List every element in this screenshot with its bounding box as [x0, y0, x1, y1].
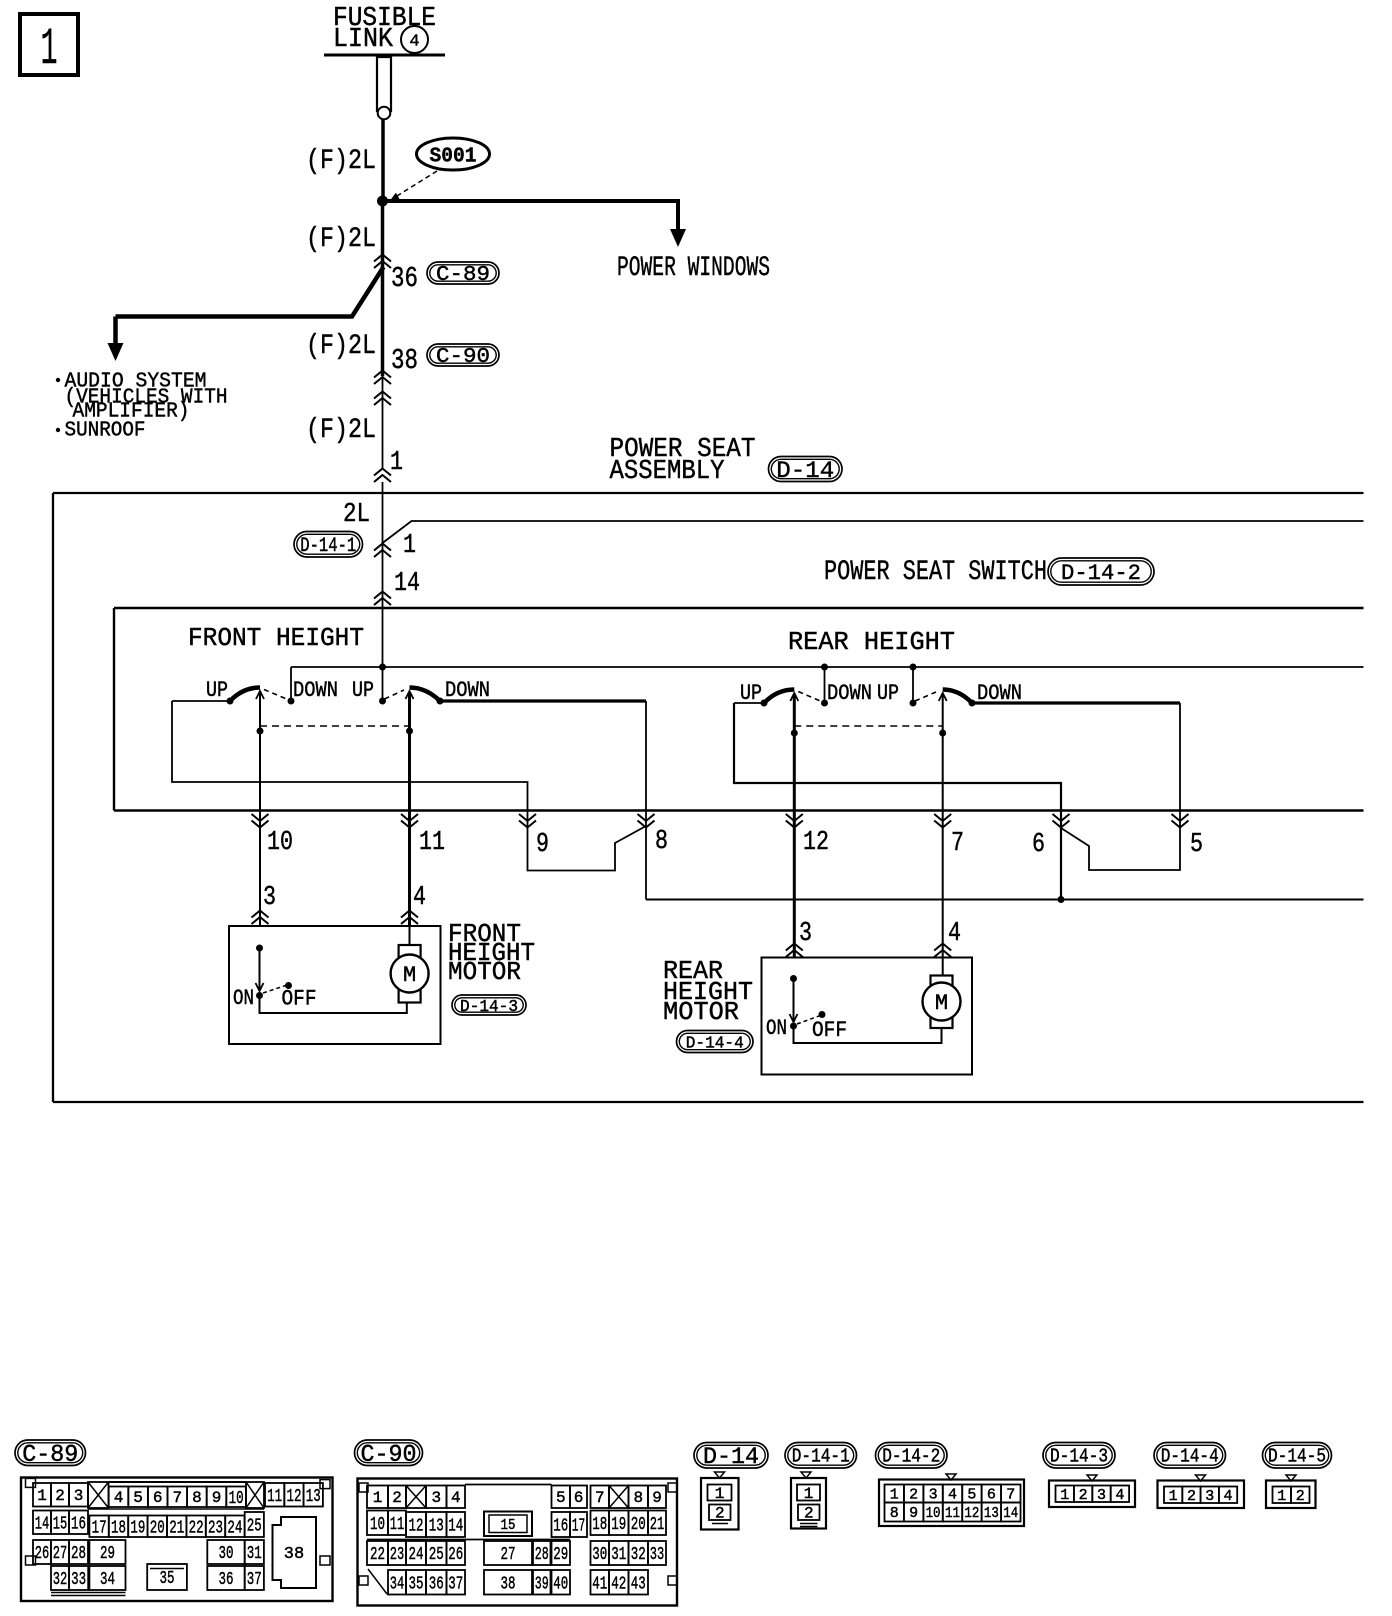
svg-text:30: 30 — [592, 1545, 607, 1565]
svg-text:D-14: D-14 — [776, 458, 834, 484]
svg-text:38: 38 — [284, 1545, 304, 1564]
svg-text:8: 8 — [192, 1489, 202, 1507]
svg-text:35: 35 — [409, 1574, 424, 1594]
svg-text:C-90: C-90 — [361, 1442, 417, 1469]
svg-text:14: 14 — [1003, 1505, 1018, 1522]
svg-text:4: 4 — [1115, 1487, 1124, 1504]
svg-text:36: 36 — [391, 262, 418, 295]
svg-text:3: 3 — [799, 919, 812, 949]
svg-text:3: 3 — [74, 1487, 84, 1505]
svg-text:13: 13 — [306, 1487, 321, 1507]
svg-text:5: 5 — [967, 1487, 976, 1504]
svg-text:39: 39 — [535, 1574, 549, 1594]
svg-text:(F)2L: (F)2L — [306, 224, 376, 255]
svg-text:9: 9 — [652, 1489, 662, 1507]
svg-text:6: 6 — [987, 1487, 996, 1504]
svg-text:5: 5 — [133, 1489, 143, 1507]
svg-text:2: 2 — [55, 1487, 65, 1505]
svg-text:6: 6 — [153, 1489, 163, 1507]
svg-text:18: 18 — [592, 1515, 607, 1535]
svg-text:26: 26 — [448, 1545, 463, 1565]
svg-text:16: 16 — [553, 1517, 568, 1537]
svg-text:7: 7 — [172, 1489, 182, 1507]
svg-text:15: 15 — [53, 1514, 68, 1534]
svg-text:12: 12 — [409, 1517, 424, 1537]
svg-text:13: 13 — [984, 1505, 999, 1522]
svg-text:15: 15 — [501, 1517, 516, 1534]
svg-text:19: 19 — [611, 1515, 626, 1535]
svg-text:1: 1 — [804, 1485, 814, 1503]
svg-text:12: 12 — [803, 828, 829, 858]
svg-text:16: 16 — [71, 1514, 86, 1534]
svg-text:D-14-1: D-14-1 — [792, 1446, 850, 1468]
svg-text:36: 36 — [429, 1574, 444, 1594]
svg-text:M: M — [403, 963, 416, 988]
svg-text:D-14-5: D-14-5 — [1268, 1446, 1326, 1468]
svg-text:4: 4 — [409, 33, 419, 52]
svg-text:DOWN: DOWN — [827, 681, 872, 706]
svg-text:9: 9 — [536, 830, 549, 860]
svg-text:4: 4 — [451, 1489, 461, 1507]
svg-text:(F)2L: (F)2L — [306, 415, 376, 446]
svg-text:29: 29 — [553, 1545, 568, 1565]
svg-text:30: 30 — [219, 1544, 234, 1564]
svg-text:20: 20 — [631, 1515, 646, 1535]
svg-text:31: 31 — [611, 1545, 626, 1565]
svg-text:11: 11 — [267, 1487, 282, 1507]
svg-text:13: 13 — [429, 1517, 444, 1537]
svg-text:3: 3 — [1097, 1487, 1106, 1504]
svg-text:D-14-4: D-14-4 — [1161, 1446, 1219, 1468]
svg-text:17: 17 — [92, 1518, 107, 1538]
svg-text:34: 34 — [390, 1574, 405, 1594]
svg-text:7: 7 — [595, 1489, 605, 1507]
svg-text:2L: 2L — [343, 500, 370, 530]
svg-text:32: 32 — [53, 1570, 68, 1590]
svg-text:7: 7 — [951, 829, 964, 859]
svg-text:20: 20 — [150, 1518, 165, 1538]
svg-text:UP: UP — [877, 681, 899, 706]
svg-text:2: 2 — [1187, 1488, 1196, 1505]
svg-text:8: 8 — [655, 827, 668, 857]
svg-text:UP: UP — [352, 678, 374, 703]
svg-text:9: 9 — [212, 1489, 222, 1507]
svg-text:6: 6 — [1032, 830, 1045, 860]
svg-text:2: 2 — [1296, 1488, 1305, 1505]
svg-text:12: 12 — [286, 1487, 301, 1507]
svg-text:OFF: OFF — [812, 1018, 847, 1043]
svg-text:11: 11 — [419, 828, 445, 858]
svg-text:14: 14 — [35, 1514, 50, 1534]
svg-text:21: 21 — [169, 1518, 184, 1538]
svg-text:10: 10 — [267, 828, 293, 858]
svg-text:POWER WINDOWS: POWER WINDOWS — [617, 253, 770, 284]
svg-text:10: 10 — [926, 1505, 941, 1522]
svg-text:38: 38 — [391, 344, 418, 377]
svg-text:32: 32 — [631, 1545, 646, 1565]
svg-text:D-14: D-14 — [703, 1444, 759, 1470]
svg-text:1: 1 — [1169, 1488, 1178, 1505]
svg-text:28: 28 — [535, 1545, 549, 1565]
svg-text:4: 4 — [948, 1487, 957, 1504]
svg-text:D-14-3: D-14-3 — [1050, 1446, 1108, 1468]
svg-text:C-89: C-89 — [22, 1442, 78, 1469]
svg-text:MOTOR: MOTOR — [448, 957, 521, 987]
svg-text:10: 10 — [370, 1515, 385, 1535]
svg-text:10: 10 — [229, 1489, 244, 1509]
svg-text:4: 4 — [1224, 1488, 1233, 1505]
svg-text:4: 4 — [114, 1489, 124, 1507]
svg-text:3: 3 — [431, 1489, 441, 1507]
svg-text:1: 1 — [890, 1487, 899, 1504]
svg-text:37: 37 — [448, 1574, 463, 1594]
svg-text:26: 26 — [35, 1544, 50, 1564]
svg-text:2: 2 — [392, 1489, 402, 1507]
svg-text:36: 36 — [219, 1570, 234, 1590]
svg-text:21: 21 — [650, 1515, 665, 1535]
svg-text:D-14-1: D-14-1 — [300, 535, 356, 558]
svg-text:D-14-2: D-14-2 — [882, 1446, 940, 1468]
svg-text:35: 35 — [160, 1569, 175, 1589]
svg-text:4: 4 — [413, 883, 426, 913]
svg-text:MOTOR: MOTOR — [663, 997, 739, 1027]
svg-text:6: 6 — [574, 1489, 584, 1507]
svg-text:25: 25 — [247, 1517, 262, 1537]
svg-text:27: 27 — [53, 1544, 68, 1564]
svg-text:34: 34 — [100, 1570, 115, 1590]
svg-text:9: 9 — [909, 1505, 918, 1522]
svg-text:8: 8 — [890, 1505, 899, 1522]
svg-text:5: 5 — [556, 1489, 566, 1507]
svg-text:37: 37 — [247, 1570, 262, 1590]
svg-text:12: 12 — [964, 1505, 979, 1522]
svg-text:41: 41 — [592, 1574, 607, 1594]
svg-text:11: 11 — [945, 1505, 960, 1522]
svg-text:14: 14 — [448, 1517, 463, 1537]
svg-text:SUNROOF: SUNROOF — [65, 420, 146, 443]
svg-text:ON: ON — [233, 986, 254, 1011]
svg-text:3: 3 — [929, 1487, 938, 1504]
svg-text:22: 22 — [189, 1518, 204, 1538]
svg-text:33: 33 — [71, 1570, 86, 1590]
svg-text:1: 1 — [715, 1485, 725, 1503]
svg-text:31: 31 — [247, 1544, 262, 1564]
svg-text:5: 5 — [1190, 830, 1203, 860]
svg-text:11: 11 — [390, 1515, 405, 1535]
svg-text:(F)2L: (F)2L — [306, 331, 376, 362]
svg-text:ON: ON — [766, 1016, 787, 1041]
svg-text:4: 4 — [948, 919, 961, 949]
svg-text:19: 19 — [130, 1518, 145, 1538]
svg-text:1: 1 — [373, 1489, 383, 1507]
svg-text:POWER SEAT SWITCH: POWER SEAT SWITCH — [824, 557, 1047, 588]
svg-text:D-14-2: D-14-2 — [1061, 561, 1141, 586]
svg-text:REAR HEIGHT: REAR HEIGHT — [788, 627, 955, 657]
svg-text:1: 1 — [1277, 1488, 1286, 1505]
svg-text:C-89: C-89 — [436, 264, 490, 287]
svg-text:14: 14 — [394, 569, 420, 599]
svg-text:43: 43 — [631, 1574, 646, 1594]
svg-text:S001: S001 — [430, 146, 477, 169]
svg-text:D-14-3: D-14-3 — [460, 998, 518, 1017]
svg-text:42: 42 — [611, 1574, 626, 1594]
svg-text:27: 27 — [501, 1545, 516, 1565]
svg-text:ASSEMBLY: ASSEMBLY — [610, 457, 725, 487]
svg-text:2: 2 — [1079, 1487, 1088, 1504]
svg-text:FRONT HEIGHT: FRONT HEIGHT — [188, 623, 364, 653]
svg-text:2: 2 — [715, 1505, 725, 1523]
svg-text:1: 1 — [390, 448, 403, 478]
svg-text:(F)2L: (F)2L — [306, 146, 376, 177]
svg-text:1: 1 — [403, 531, 416, 561]
svg-text:1: 1 — [41, 20, 58, 79]
svg-text:40: 40 — [553, 1574, 568, 1594]
svg-text:3: 3 — [263, 883, 276, 913]
svg-text:3: 3 — [1205, 1488, 1214, 1505]
svg-text:DOWN: DOWN — [445, 678, 490, 703]
svg-text:23: 23 — [390, 1545, 405, 1565]
svg-text:1: 1 — [37, 1487, 47, 1505]
svg-text:1: 1 — [1060, 1487, 1069, 1504]
svg-text:8: 8 — [633, 1489, 643, 1507]
svg-text:2: 2 — [909, 1487, 918, 1504]
svg-text:22: 22 — [370, 1545, 385, 1565]
svg-text:18: 18 — [111, 1518, 126, 1538]
svg-text:25: 25 — [429, 1545, 444, 1565]
svg-text:38: 38 — [501, 1574, 516, 1594]
svg-text:23: 23 — [208, 1518, 223, 1538]
svg-text:DOWN: DOWN — [293, 678, 338, 703]
svg-text:UP: UP — [206, 678, 228, 703]
svg-text:28: 28 — [71, 1544, 86, 1564]
svg-text:7: 7 — [1006, 1487, 1015, 1504]
svg-text:C-90: C-90 — [436, 346, 490, 369]
svg-text:17: 17 — [572, 1517, 586, 1537]
svg-text:2: 2 — [804, 1505, 814, 1523]
svg-text:24: 24 — [227, 1518, 242, 1538]
svg-text:33: 33 — [650, 1545, 665, 1565]
svg-text:M: M — [935, 991, 948, 1016]
svg-text:LINK: LINK — [333, 25, 394, 55]
svg-text:24: 24 — [409, 1545, 424, 1565]
svg-text:OFF: OFF — [282, 987, 317, 1012]
svg-text:D-14-4: D-14-4 — [686, 1034, 744, 1053]
svg-text:29: 29 — [100, 1544, 115, 1564]
